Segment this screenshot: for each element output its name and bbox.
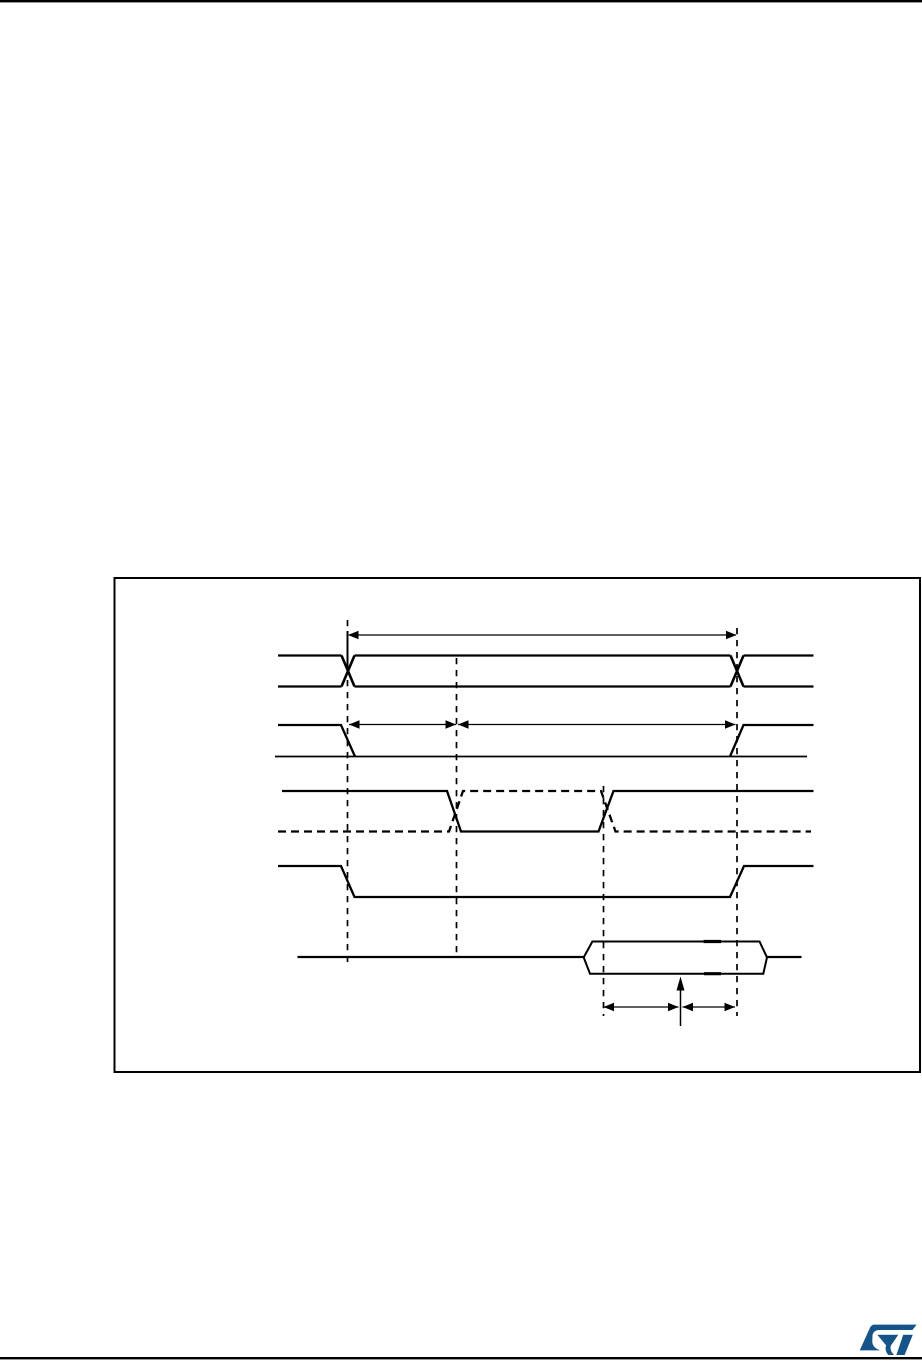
data reference vertical arrow: [677, 977, 685, 1027]
chip enable wire (row 2): [278, 725, 814, 757]
dashed timing line L3: [603, 786, 605, 1016]
data valid dimension arrow (bottom left): [604, 1003, 679, 1011]
hold dimension arrow (row 2 right): [458, 720, 736, 728]
output enable solid wire (row 3): [282, 791, 814, 832]
ST logo T: [896, 1335, 912, 1355]
data hold dimension arrow (bottom right): [683, 1003, 736, 1011]
bubble edge emphasis marks: [704, 942, 722, 974]
page footer rule: [0, 1357, 922, 1359]
cycle-time dimension arrow (top): [348, 631, 737, 671]
setup dimension arrow (row 2 left): [349, 720, 456, 728]
address crossover X at L1: [342, 656, 355, 687]
figure frame box: [115, 578, 921, 1072]
ST logo S-funnel: [877, 1335, 898, 1355]
dashed timing line L2: [456, 658, 458, 953]
address bus wire (row 1): [278, 656, 814, 687]
dashed timing line L1: [347, 620, 349, 962]
data out wire (row 5): [298, 956, 802, 958]
page header rule: [0, 0, 922, 2]
address crossover X at L4: [731, 656, 744, 687]
ST logo swoosh: [860, 1325, 917, 1351]
data valid bubble: [584, 942, 767, 974]
write enable wire (row 4): [278, 866, 814, 897]
dashed timing line L4: [736, 628, 738, 1016]
chip enable low rail: [275, 756, 807, 758]
output enable dashed alternate wire (row 3): [278, 791, 811, 832]
